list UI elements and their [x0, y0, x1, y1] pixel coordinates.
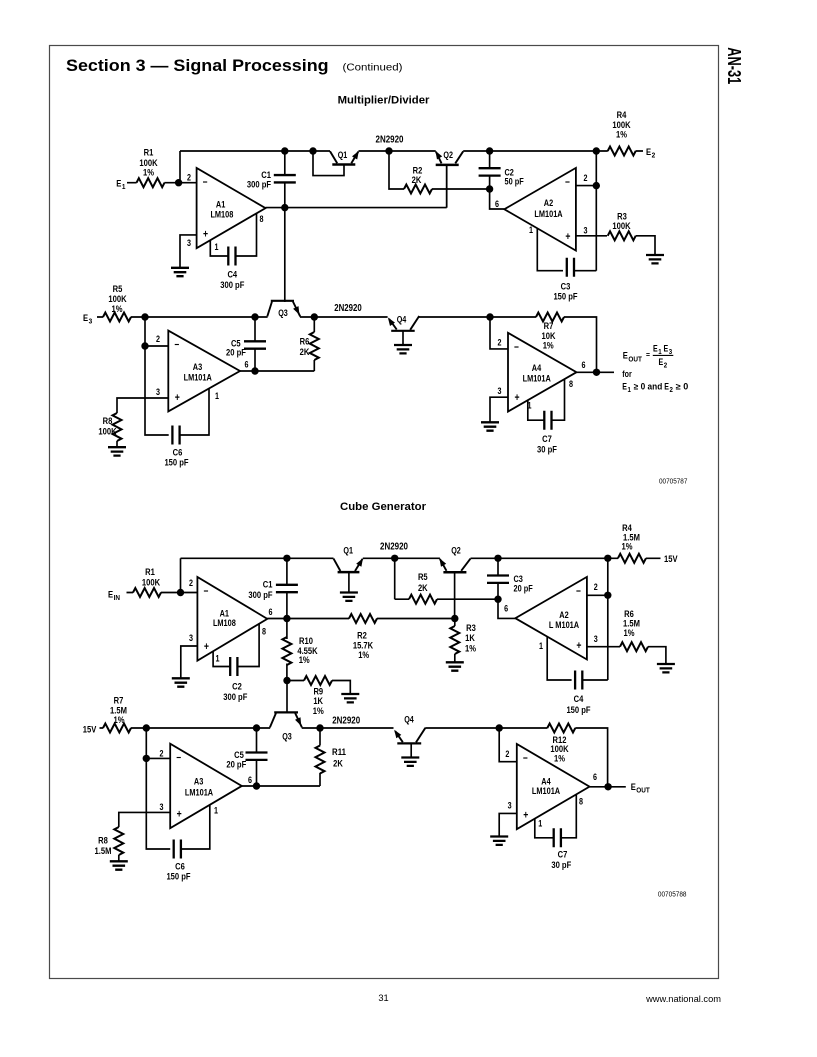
- wire lower rail c2: [100, 727, 500, 729]
- svg-text:15V: 15V: [83, 724, 97, 735]
- svg-text:R1: R1: [145, 567, 155, 578]
- wire A3 pin2 c2: [146, 757, 170, 759]
- capacitor C7 c2 30pF: [554, 828, 561, 847]
- capacitor C3 c2 20pF: [487, 576, 509, 583]
- svg-text:3: 3: [187, 238, 191, 248]
- wire R3 ground: [454, 654, 456, 662]
- svg-text:R5: R5: [418, 572, 428, 583]
- wire A4 pin2 feed: [490, 317, 508, 349]
- op-amp A4 LM101A: [508, 333, 577, 412]
- wire A1 pin3 ground c2: [181, 646, 198, 678]
- node rail-R1: [179, 151, 181, 183]
- svg-text:E: E: [664, 382, 669, 392]
- wire pin1 to C2 c2: [213, 651, 230, 666]
- resistor R5 c2 2K: [409, 595, 437, 604]
- wire A2 pin3 to R6: [587, 646, 620, 648]
- wire C7 to pin8: [552, 379, 565, 420]
- wire A2 pin1 to C3: [537, 228, 563, 271]
- transistor Q4 c2: [397, 742, 421, 744]
- svg-text:00705787: 00705787: [659, 477, 687, 486]
- svg-text:20 pF: 20 pF: [514, 584, 534, 594]
- ground Q1 c2: [340, 593, 358, 601]
- svg-text:C3: C3: [514, 574, 523, 584]
- svg-text:8: 8: [569, 379, 573, 389]
- ground A4 pin3: [481, 422, 499, 430]
- svg-text:2N2920: 2N2920: [332, 715, 360, 726]
- transistor Q2: [436, 152, 442, 164]
- svg-text:A4: A4: [541, 777, 551, 787]
- svg-text:1: 1: [627, 387, 631, 394]
- node R6 top: [311, 313, 318, 320]
- wire R2 to C2 node: [432, 188, 490, 190]
- wire A3 pin2: [145, 345, 168, 347]
- svg-text:50 pF: 50 pF: [505, 177, 525, 187]
- svg-text:AN-31: AN-31: [724, 47, 744, 84]
- svg-text:A2: A2: [544, 198, 553, 208]
- node R9/R10: [283, 677, 290, 684]
- capacitor C2 50pF: [479, 168, 501, 175]
- node R7 out: [143, 724, 150, 731]
- node C3 bottom: [494, 596, 501, 603]
- svg-text:A3: A3: [193, 362, 202, 372]
- wire A1 pin3 to ground: [180, 235, 197, 268]
- node c2 C1 top: [283, 555, 290, 562]
- svg-text:6: 6: [248, 775, 252, 785]
- svg-text:6: 6: [269, 607, 273, 617]
- svg-text:+: +: [203, 229, 208, 241]
- transistor Q3: [271, 300, 294, 302]
- svg-text:A2: A2: [559, 610, 568, 620]
- svg-text:E: E: [108, 590, 113, 601]
- svg-text:Section 3 — Signal Processing: Section 3 — Signal Processing: [66, 56, 329, 75]
- node C1 top: [281, 147, 288, 154]
- svg-text:−: −: [174, 339, 179, 351]
- svg-text:OUT: OUT: [628, 354, 642, 363]
- capacitor C2 c2 300pF: [230, 657, 237, 676]
- wire C6 to pin1 c2: [181, 805, 210, 849]
- svg-text:1%: 1%: [554, 754, 565, 765]
- wire A1 out row c2: [267, 618, 455, 620]
- svg-text:3: 3: [160, 802, 164, 812]
- ground R3: [646, 255, 664, 263]
- svg-text:1: 1: [539, 641, 543, 651]
- wire C5 col c2: [256, 728, 258, 786]
- ground A4 pin3 c2: [490, 837, 508, 845]
- node A3 pin2 c2: [143, 755, 150, 762]
- transistor Q3 c2: [274, 711, 298, 713]
- svg-text:2: 2: [669, 387, 673, 394]
- svg-text:−: −: [514, 341, 519, 353]
- resistor R9 1K: [287, 680, 304, 682]
- resistor R10 4.55K: [286, 619, 288, 681]
- capacitor C4 c2 150pF: [575, 671, 582, 690]
- svg-text:LM101A: LM101A: [184, 373, 212, 383]
- capacitor C6 c2 150pF: [174, 840, 181, 859]
- wire C1 col c2: [286, 558, 288, 618]
- wire pin1 to C4: [210, 240, 228, 256]
- node c2 2N2920: [391, 555, 398, 562]
- op-amp A4 c2 LM101A: [517, 744, 590, 829]
- wire left col c2: [146, 728, 170, 849]
- resistor R4 100K: [608, 147, 636, 156]
- svg-text:E: E: [653, 344, 658, 354]
- svg-text:Q1: Q1: [338, 150, 348, 160]
- svg-text:2N2920: 2N2920: [334, 303, 362, 314]
- svg-text:Q3: Q3: [278, 308, 288, 318]
- svg-text:1: 1: [529, 225, 533, 235]
- ground R8: [108, 447, 126, 455]
- resistor R11 2K: [316, 746, 325, 774]
- svg-text:2: 2: [160, 749, 164, 759]
- svg-text:LM108: LM108: [213, 618, 236, 628]
- svg-text:100K: 100K: [612, 221, 630, 232]
- svg-text:+: +: [565, 231, 570, 243]
- wire A1 output row: [266, 165, 447, 208]
- svg-text:30 pF: 30 pF: [537, 445, 557, 456]
- svg-text:1: 1: [216, 653, 220, 663]
- wire C6 to pin1: [180, 389, 209, 436]
- capacitor C3 150pF: [567, 258, 574, 277]
- wire C1 column: [284, 151, 286, 208]
- wire A2 pin1 to C4 c2: [547, 637, 571, 680]
- svg-text:A1: A1: [220, 608, 229, 618]
- svg-text:L M101A: L M101A: [549, 620, 580, 630]
- svg-text:Q3: Q3: [282, 731, 292, 741]
- svg-text:−: −: [576, 585, 581, 597]
- node R4/pin2 column: [593, 147, 600, 154]
- node A4 feed: [486, 313, 493, 320]
- op-amp A2 LM101A: [504, 168, 576, 251]
- op-amp A1 LM108: [197, 168, 266, 248]
- node R11 top: [316, 724, 323, 731]
- svg-text:2: 2: [505, 749, 509, 759]
- svg-text:1: 1: [538, 818, 542, 828]
- svg-text:2N2920: 2N2920: [376, 134, 404, 145]
- wire 2N2920 dot down to R2: [389, 151, 404, 189]
- wire A4 pin3 ground c2: [499, 813, 517, 836]
- ground R8 c2: [110, 861, 128, 869]
- svg-text:150 pF: 150 pF: [566, 705, 590, 716]
- wire A3 pin3 to R8 c2: [119, 812, 170, 827]
- wire EIN row: [127, 592, 198, 594]
- svg-text:2: 2: [584, 173, 588, 183]
- svg-text:E: E: [646, 147, 651, 158]
- svg-text:3: 3: [156, 387, 160, 397]
- svg-text:A4: A4: [532, 363, 542, 373]
- wire A3 out row c2: [242, 773, 320, 786]
- svg-text:−: −: [203, 177, 208, 189]
- svg-text:C1: C1: [263, 579, 273, 590]
- svg-text:2: 2: [187, 172, 191, 182]
- node R1/pin2 junction: [175, 179, 182, 186]
- svg-text:6: 6: [245, 360, 249, 370]
- node R2/R3/Q2 base: [451, 615, 458, 622]
- svg-text:300 pF: 300 pF: [248, 590, 272, 601]
- wire left column to C6: [145, 317, 169, 435]
- op-amp A2 c2 LM101A: [515, 577, 587, 660]
- wire E3 rail: [97, 316, 490, 318]
- capacitor C6 150pF: [172, 426, 179, 445]
- capacitor C1 c2 300pF: [276, 585, 298, 592]
- wire A2 pin2: [576, 185, 596, 187]
- capacitor C5 c2 20pF: [246, 753, 268, 760]
- node A4 out: [593, 369, 600, 376]
- node R5 output: [141, 313, 148, 320]
- svg-text:300 pF: 300 pF: [247, 180, 271, 191]
- node A3 out c2: [253, 782, 260, 789]
- node C5 top c2: [253, 724, 260, 731]
- svg-text:−: −: [176, 752, 181, 764]
- wire C4 to pin2 col c2: [582, 679, 608, 681]
- svg-text:6: 6: [504, 604, 508, 614]
- node 2N2920 bases: [385, 147, 392, 154]
- node A1 out c2: [283, 615, 290, 622]
- wire R9 to ground: [332, 681, 350, 694]
- page frame border: [50, 46, 719, 979]
- svg-text:+: +: [177, 809, 182, 821]
- svg-text:1: 1: [122, 182, 126, 191]
- svg-text:LM101A: LM101A: [523, 374, 551, 384]
- svg-text:R11: R11: [332, 747, 346, 758]
- svg-text:Cube Generator: Cube Generator: [340, 501, 427, 513]
- svg-text:1: 1: [215, 391, 219, 401]
- node A3 pin2: [141, 342, 148, 349]
- wire pin1 to C7 c2: [535, 819, 554, 838]
- svg-text:+: +: [523, 810, 528, 822]
- resistor R12 100K: [499, 727, 547, 729]
- node Q1 base tie: [309, 147, 316, 154]
- wire top rail: [180, 150, 643, 152]
- svg-text:Q4: Q4: [397, 315, 407, 325]
- svg-text:A1: A1: [216, 200, 225, 210]
- wire A4 pin2 feed c2: [499, 728, 517, 762]
- svg-text:1%: 1%: [624, 628, 635, 639]
- svg-text:+: +: [204, 641, 209, 653]
- svg-text:8: 8: [579, 796, 583, 806]
- svg-text:www.national.com: www.national.com: [645, 994, 721, 1004]
- ground R3 c2: [446, 662, 464, 670]
- svg-text:300 pF: 300 pF: [220, 280, 244, 291]
- wire A2 pin3 to R3: [576, 235, 607, 237]
- svg-text:00705788: 00705788: [658, 890, 687, 899]
- wire C3 col c2: [498, 558, 515, 618]
- svg-text:150 pF: 150 pF: [164, 458, 188, 469]
- svg-text:≥ 0: ≥ 0: [676, 382, 689, 392]
- svg-text:≥ 0 and: ≥ 0 and: [634, 382, 663, 392]
- svg-text:E: E: [623, 351, 628, 362]
- wire Q3 base col c2: [286, 681, 288, 713]
- svg-text:(Continued): (Continued): [343, 63, 403, 74]
- wire R5 branch: [395, 558, 409, 599]
- svg-text:E: E: [83, 313, 88, 324]
- resistor R7 10K: [536, 313, 564, 322]
- svg-text:31: 31: [378, 993, 388, 1003]
- svg-text:3: 3: [508, 801, 512, 811]
- svg-text:Q4: Q4: [404, 715, 414, 725]
- svg-text:C4: C4: [574, 694, 584, 705]
- ground Q4 c2: [401, 758, 419, 766]
- wire C3 to pin2 column: [574, 270, 596, 272]
- svg-text:1%: 1%: [543, 340, 554, 351]
- svg-text:1: 1: [215, 242, 219, 252]
- svg-text:for: for: [622, 369, 632, 379]
- svg-text:1%: 1%: [465, 643, 476, 654]
- ground Q4: [394, 345, 412, 353]
- svg-text:150 pF: 150 pF: [553, 292, 577, 303]
- node C5 top: [251, 313, 258, 320]
- svg-text:C7: C7: [542, 434, 552, 445]
- svg-text:3: 3: [189, 633, 193, 643]
- svg-text:300 pF: 300 pF: [223, 692, 247, 703]
- resistor R8 100K: [113, 413, 122, 441]
- svg-text:2: 2: [664, 362, 668, 369]
- svg-text:E: E: [116, 179, 121, 190]
- transistor Q1: [330, 151, 337, 163]
- ground A1 pin3 c2: [172, 678, 190, 686]
- node c2 R4 col: [604, 555, 611, 562]
- wire top rail c2: [181, 557, 661, 559]
- svg-text:1%: 1%: [358, 650, 369, 661]
- svg-text:1%: 1%: [313, 706, 324, 717]
- wire R5 to C3 node: [437, 598, 498, 600]
- wire A4 pin3 to ground: [490, 397, 508, 422]
- svg-text:3: 3: [594, 634, 598, 644]
- svg-text:Multiplier/Divider: Multiplier/Divider: [338, 94, 431, 106]
- capacitor C1 300pF: [274, 175, 296, 182]
- wire C5 column: [254, 317, 256, 371]
- svg-text:1%: 1%: [616, 130, 627, 141]
- resistor R3 100K: [608, 231, 636, 240]
- node A4 out c2: [604, 783, 611, 790]
- resistor R6 c2 1.5M: [620, 642, 648, 651]
- svg-text:2K: 2K: [412, 175, 422, 186]
- wire A4 out c2: [590, 786, 626, 788]
- svg-text:20 pF: 20 pF: [226, 760, 246, 771]
- node C2 top: [486, 147, 493, 154]
- resistor R8 c2 1.5M: [114, 827, 123, 855]
- wire A3 pin3 to R8: [117, 398, 168, 413]
- transistor Q2 c2: [440, 559, 447, 571]
- svg-text:IN: IN: [114, 593, 120, 602]
- svg-text:E: E: [659, 357, 664, 367]
- svg-text:2K: 2K: [300, 347, 310, 358]
- svg-text:R8: R8: [98, 835, 108, 846]
- wire right col c2: [607, 558, 609, 680]
- svg-text:1%: 1%: [299, 655, 310, 666]
- wire A3 output row: [240, 370, 314, 372]
- op-amp A3 LM101A: [168, 331, 240, 412]
- svg-text:2: 2: [652, 151, 656, 160]
- svg-text:C2: C2: [232, 681, 242, 692]
- svg-text:3: 3: [89, 317, 93, 326]
- svg-text:A3: A3: [194, 777, 203, 787]
- svg-text:LM101A: LM101A: [534, 209, 562, 219]
- svg-text:E: E: [664, 344, 669, 354]
- wire C2 column: [490, 151, 505, 209]
- resistor R1 c2: [133, 588, 161, 597]
- wire C1 col down to Q3: [284, 208, 286, 302]
- svg-text:1%: 1%: [112, 304, 123, 315]
- svg-text:+: +: [514, 392, 519, 404]
- resistor R6 2K: [313, 317, 315, 371]
- node A4 feed c2: [496, 724, 503, 731]
- svg-text:−: −: [523, 753, 528, 765]
- svg-text:2K: 2K: [333, 758, 343, 769]
- svg-text:2: 2: [498, 337, 502, 347]
- resistor R7 c2 1.5M: [103, 724, 131, 733]
- resistor R2 2K: [404, 185, 432, 194]
- svg-text:100K: 100K: [98, 427, 116, 438]
- svg-text:LM101A: LM101A: [185, 787, 213, 797]
- wire C4 to pin8: [236, 213, 257, 256]
- capacitor C4 300pF: [228, 247, 235, 266]
- svg-text:E: E: [622, 382, 627, 392]
- wire EIN col: [180, 558, 182, 592]
- svg-text:2: 2: [594, 582, 598, 592]
- node A3 out: [251, 367, 258, 374]
- svg-text:8: 8: [262, 626, 266, 636]
- node A2 pin2 c2: [604, 592, 611, 599]
- ground R9: [341, 694, 359, 702]
- svg-text:15V: 15V: [664, 554, 678, 565]
- wire right column: [595, 151, 597, 271]
- svg-text:Q1: Q1: [343, 546, 353, 556]
- svg-text:Q2: Q2: [451, 546, 461, 556]
- svg-text:2: 2: [156, 334, 160, 344]
- svg-text:1: 1: [214, 805, 218, 815]
- wire C7 to pin8 c2: [561, 795, 576, 838]
- node c2 C3 top: [494, 555, 501, 562]
- wire R7 to output column: [564, 317, 597, 372]
- svg-text:6: 6: [593, 772, 597, 782]
- svg-text:150 pF: 150 pF: [166, 872, 190, 883]
- ground A1 pin3: [171, 268, 189, 276]
- wire R3 to ground: [636, 236, 655, 255]
- resistor R4 c2 1.5M: [618, 554, 646, 563]
- svg-text:8: 8: [260, 214, 264, 224]
- svg-text:Q2: Q2: [443, 150, 453, 160]
- svg-text:6: 6: [495, 199, 499, 209]
- node EIN/pin2: [177, 589, 184, 596]
- wire pin1 to C7: [528, 400, 544, 420]
- wire R8 to ground: [116, 441, 118, 447]
- wire E1 to pin2: [127, 182, 197, 184]
- svg-text:−: −: [565, 176, 570, 188]
- svg-text:LM101A: LM101A: [532, 786, 560, 796]
- svg-text:OUT: OUT: [636, 786, 650, 795]
- resistor R2 c2 15.7K: [349, 614, 377, 623]
- op-amp A3 c2 LM101A: [170, 744, 242, 829]
- svg-text:3: 3: [584, 225, 588, 235]
- svg-text:6: 6: [582, 360, 586, 370]
- wire R8 ground c2: [118, 855, 120, 861]
- transistor Q4: [391, 330, 415, 332]
- svg-text:E: E: [631, 782, 636, 793]
- wire C2 to pin8 c2: [238, 623, 260, 666]
- capacitor C7 30pF: [544, 411, 551, 430]
- capacitor C5 20pF: [244, 341, 266, 348]
- resistor R5 100K: [103, 313, 131, 322]
- svg-text:C3: C3: [561, 281, 571, 292]
- svg-text:1%: 1%: [114, 715, 125, 726]
- svg-text:2N2920: 2N2920: [380, 542, 408, 553]
- svg-text:3: 3: [498, 386, 502, 396]
- op-amp A1 c2 LM108: [197, 577, 267, 661]
- svg-text:20 pF: 20 pF: [226, 348, 246, 359]
- svg-text:+: +: [576, 640, 581, 652]
- node A1 out / C1 bottom: [281, 204, 288, 211]
- node C2 bottom: [486, 185, 493, 192]
